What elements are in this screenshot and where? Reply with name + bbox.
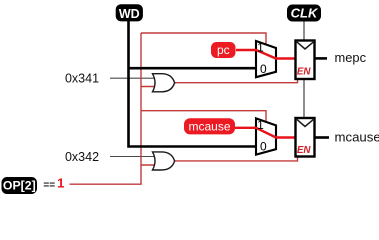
svg-text:1: 1 [257,118,264,132]
svg-text:1: 1 [57,176,64,191]
svg-text:0: 0 [260,62,267,76]
svg-text:pc: pc [217,43,230,57]
svg-text:1: 1 [257,41,264,55]
svg-text:CLK: CLK [291,6,319,21]
svg-text:0: 0 [260,139,267,153]
svg-text:mcause: mcause [188,120,230,134]
svg-text:0x341: 0x341 [65,72,99,86]
svg-text:0x342: 0x342 [65,150,99,164]
svg-text:WD: WD [119,7,140,21]
svg-text:EN: EN [297,67,312,78]
svg-text:mcause: mcause [335,130,379,145]
svg-text:OP[2]: OP[2] [3,179,36,193]
svg-text:==: == [43,180,55,191]
svg-text:mepc: mepc [335,50,367,65]
svg-text:EN: EN [297,145,312,156]
